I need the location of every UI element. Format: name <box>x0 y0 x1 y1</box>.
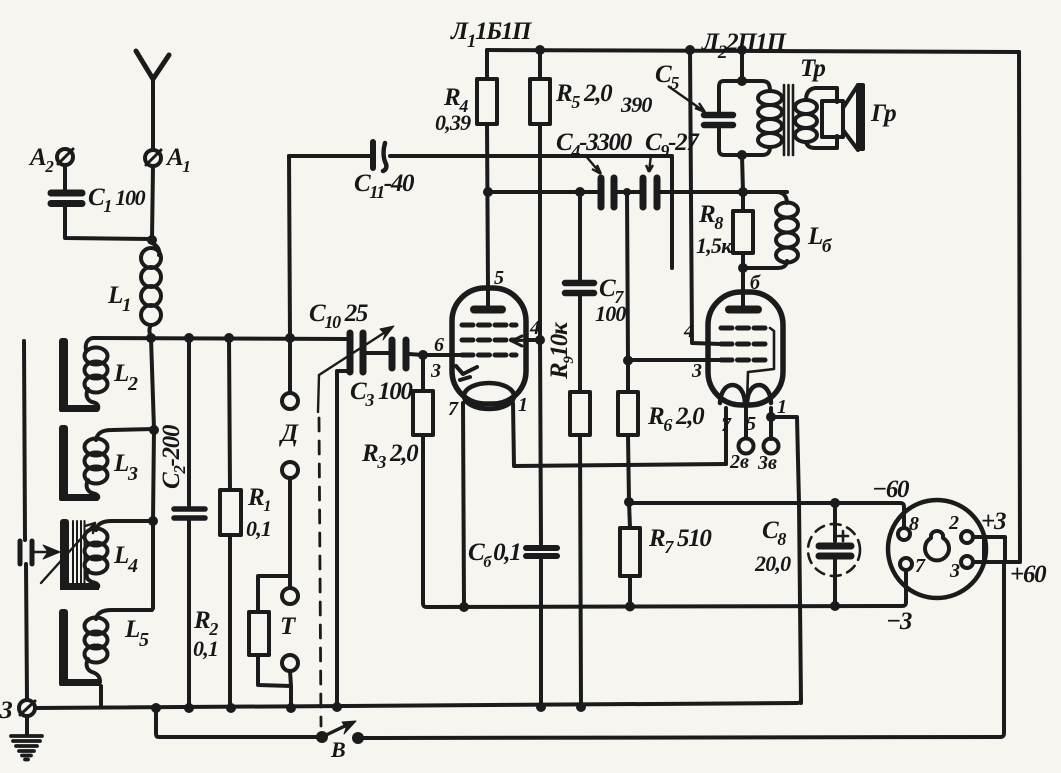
terminal Z (earth) <box>19 700 35 716</box>
node bus transformer feed <box>737 45 747 55</box>
node R9 to rail <box>576 702 586 712</box>
wire right edge +60 riser <box>1005 52 1020 562</box>
tube V2 internal beam connection <box>747 328 774 404</box>
jack contact D lower <box>282 462 298 478</box>
wire +60 riser down to switch rail <box>1000 562 1004 737</box>
svg-text:7: 7 <box>448 398 459 420</box>
svg-text:6: 6 <box>434 334 444 356</box>
node anode line at C7 branch <box>575 187 585 197</box>
capacitor C5 with primary loop left side <box>704 81 742 155</box>
wire top supply bus <box>487 50 1019 52</box>
svg-text:3в: 3в <box>757 452 777 474</box>
wire anode node to tube V2 <box>741 268 745 293</box>
node bus-R1 <box>224 333 234 343</box>
svg-text:7: 7 <box>915 555 926 577</box>
inductor L1 <box>141 243 161 337</box>
svg-text:1: 1 <box>518 394 528 416</box>
wire bus to V2 pin4 <box>690 50 721 344</box>
wire R6 branch from C4-C9 node <box>627 192 628 392</box>
wire bus to transformer top rail <box>740 50 744 81</box>
switch contact left <box>316 731 328 743</box>
svg-text:4: 4 <box>683 320 694 342</box>
resistor R7 <box>620 528 640 576</box>
transformer Tp secondary winding <box>795 88 830 148</box>
wire V1 pin1 filament line to V2 pin7 <box>513 403 726 466</box>
wire R5 down to pin4 node <box>538 124 542 340</box>
svg-text:3: 3 <box>691 360 702 382</box>
svg-text:С2-200: С2-200 <box>158 424 189 489</box>
resistor R1 <box>220 490 241 535</box>
node R7 bottom on y606 <box>625 602 635 612</box>
resistor R4 <box>477 79 497 124</box>
tube V1 grid rows <box>462 325 516 355</box>
capacitor C4 <box>601 178 614 207</box>
node C8 bottom on y606 <box>830 601 840 611</box>
node bus-C2 <box>184 333 194 343</box>
node V2 grid wire <box>623 356 633 366</box>
power plug body <box>888 500 986 598</box>
jack contact T lower <box>282 655 298 671</box>
wire grid-leak line y606 <box>427 570 906 607</box>
svg-text:0,39: 0,39 <box>435 110 471 135</box>
svg-text:З: З <box>0 697 13 724</box>
wire coil tap line L3-L4-L5 <box>151 338 154 608</box>
resistor R2 (jack shunt) <box>249 612 269 655</box>
node pin4 screen <box>535 335 545 345</box>
tube V1 anode <box>474 288 502 310</box>
switch blade <box>322 721 356 737</box>
node rail R1 <box>226 703 236 713</box>
capacitor C3 <box>392 340 406 368</box>
node C6 to rail <box>536 702 546 712</box>
plug pin 2 <box>961 531 973 543</box>
svg-text:б: б <box>750 272 761 294</box>
switch contact right <box>352 732 364 744</box>
svg-text:20,0: 20,0 <box>754 551 791 576</box>
svg-text:390: 390 <box>620 92 652 117</box>
capacitor C2 <box>174 509 205 518</box>
wire R4 to tube V1 pin5 <box>487 124 488 288</box>
node transformer primary bottom <box>737 150 747 160</box>
wire V2 pin5 lead to terminal 2V <box>744 407 748 438</box>
capacitor C10 (trimmer) <box>350 333 363 372</box>
svg-text:В: В <box>330 737 345 762</box>
svg-text:3: 3 <box>949 560 960 582</box>
svg-text:0,1: 0,1 <box>193 636 218 661</box>
coil socket bar L3 <box>59 425 99 501</box>
loudspeaker Gr voice coil and horn <box>822 83 865 151</box>
wire C11 line left segment <box>289 154 371 158</box>
node tap L3 <box>149 425 159 435</box>
wire tuned-circuit bus <box>93 338 347 339</box>
wire antenna stem to terminal A1 <box>151 96 155 150</box>
node anode line at R8-L6 top <box>738 187 748 197</box>
label arrow C4 <box>585 155 601 174</box>
wire C11 line right segment to L6 bottom node <box>390 156 672 268</box>
antenna symbol <box>136 51 169 96</box>
wire A2 to C1 <box>63 165 67 190</box>
terminal A1 <box>145 150 161 166</box>
resistor R3 top lead <box>421 355 425 391</box>
wire C1 to antenna junction <box>65 206 152 239</box>
capacitor C1 <box>51 193 82 204</box>
wire C10 rotor to chassis <box>337 371 350 707</box>
svg-text:1: 1 <box>777 396 787 418</box>
variable-inductance arrow through L4 <box>41 523 95 583</box>
arrow through C10 <box>318 326 394 412</box>
capacitor C7 <box>565 283 594 293</box>
node transformer primary top <box>737 76 747 86</box>
tube V1 diode hook <box>456 366 477 380</box>
svg-text:5: 5 <box>746 413 756 435</box>
wire screen bypass branch down through C6 <box>540 340 541 708</box>
wire A1 down to junction <box>152 166 153 239</box>
svg-text:8: 8 <box>909 513 919 535</box>
wire pin1 branch down right side to ground rail <box>771 417 801 703</box>
node between C4 and C9 <box>623 188 631 196</box>
node rail C2 <box>184 703 194 713</box>
svg-text:3: 3 <box>430 360 441 382</box>
wire C10 to C3 <box>366 351 389 355</box>
node rail L-tap <box>151 703 161 713</box>
inductor L2 <box>85 338 108 409</box>
jack contact T upper <box>282 588 298 604</box>
tube V2 filament arcs <box>720 385 771 403</box>
capacitor C11 (trimmer) <box>373 142 386 171</box>
plug pin 3 <box>961 556 973 568</box>
tube V1 pin4 arrow into grid2 <box>512 336 526 346</box>
jack branch wire from bus <box>288 338 292 393</box>
wire anode coupling line <box>488 190 787 194</box>
wire R7 leads <box>629 502 630 606</box>
svg-text:7: 7 <box>721 414 732 436</box>
node bus screen feed V2 <box>685 45 695 55</box>
wire rail stub to switch <box>156 708 317 737</box>
coil socket bar L5 <box>59 609 101 686</box>
wire C11 riser from bus <box>289 156 290 338</box>
resistor R8 <box>733 211 753 253</box>
resistor R5 top lead <box>538 50 542 79</box>
svg-text:−3: −3 <box>886 608 912 635</box>
switch coupling dashed link <box>319 418 321 726</box>
terminal A2 <box>57 149 73 165</box>
wire chassis plug lead <box>24 341 27 699</box>
label arrow C9 <box>646 155 653 172</box>
node anode line at tube pin5 riser <box>483 187 493 197</box>
wire D to T jack <box>258 478 290 612</box>
node bus-L1 <box>146 333 156 343</box>
resistor R1 branch wire <box>229 338 230 708</box>
node pin1 <box>766 412 776 422</box>
node grid V1 <box>418 350 428 360</box>
power plug keyhole <box>925 531 949 560</box>
label arrow C5 <box>668 86 705 112</box>
svg-text:1,5к: 1,5к <box>696 233 733 258</box>
tube V2 anode <box>729 292 758 310</box>
inductor L6 <box>743 192 798 268</box>
inductor L4 <box>85 521 154 587</box>
wire C7 leads <box>578 192 582 392</box>
resistor R8 bottom lead <box>741 253 745 268</box>
wire -60 line <box>629 503 904 528</box>
band selector plug <box>20 541 32 564</box>
tube V2 grid rows <box>721 328 769 360</box>
resistor R3 <box>413 391 433 435</box>
node jack to rail <box>286 703 296 713</box>
node bus-C11 <box>285 333 295 343</box>
key square jumper <box>984 537 1005 562</box>
svg-text:4: 4 <box>529 317 540 339</box>
svg-text:2: 2 <box>948 512 959 534</box>
wire R2 bottom to T lower contact and rail <box>258 655 291 708</box>
wire V2 pin7 filament lead <box>724 408 728 464</box>
node bus-R5 <box>535 45 545 55</box>
wire V1 pin7 lead down <box>463 403 464 607</box>
wire pin4 node into tube V1 <box>526 338 540 342</box>
node pin7 V1 on y606 <box>459 602 469 612</box>
node C8 top <box>830 498 840 508</box>
plug pin 8 <box>898 528 910 540</box>
wire R9 bottom to rail <box>580 435 581 708</box>
wire R6 bottom to -60 node <box>628 435 629 502</box>
svg-text:5: 5 <box>494 267 504 289</box>
svg-text:R910к: R910к <box>546 321 577 380</box>
plug pin 7 <box>900 558 912 570</box>
node V2 anode <box>738 263 748 273</box>
wire L5 socket to ground rail <box>99 686 103 707</box>
capacitor C2 branch wire <box>187 338 191 708</box>
svg-text:Д: Д <box>279 420 299 447</box>
node tap L4 <box>148 516 158 526</box>
svg-text:100: 100 <box>595 301 626 326</box>
capacitor C8 electrolytic <box>808 503 860 606</box>
inductor L3 <box>85 429 155 498</box>
ground symbol <box>11 736 42 760</box>
resistor R3 bottom lead <box>423 435 427 607</box>
resistor R5 <box>530 79 550 124</box>
svg-text:+3: +3 <box>981 508 1006 535</box>
resistor R9 <box>570 392 590 435</box>
tube V1 envelope <box>452 288 526 404</box>
resistor R8 top lead <box>741 192 745 211</box>
transformer Tp core <box>784 85 793 155</box>
tube V2 envelope <box>708 292 783 405</box>
inductor L5 <box>85 608 154 682</box>
resistor R6 <box>618 392 638 435</box>
capacitor C6 <box>526 548 557 556</box>
wire Z to ground symbol <box>25 716 29 734</box>
node -60 line left end <box>624 497 634 507</box>
wire V2 pin1 lead <box>769 408 773 439</box>
wire V2 pin3 grid lead <box>629 358 721 362</box>
terminal 3V <box>764 439 779 454</box>
svg-text:2в: 2в <box>729 451 749 473</box>
band selector plug arrow into L4 <box>33 545 60 559</box>
svg-text:+60: +60 <box>1010 561 1047 588</box>
capacitor C9 <box>643 178 657 207</box>
coil socket bar L4 with inserted plug hatching <box>60 519 99 590</box>
jack contact D upper <box>282 393 298 409</box>
svg-text:Тр: Тр <box>800 55 825 82</box>
transformer Tp primary winding <box>742 81 782 155</box>
wire switch to +60 riser <box>358 737 1000 738</box>
wire transformer bottom to anode choke node <box>742 155 743 192</box>
node antenna junction <box>147 235 157 245</box>
coil socket bar L2 <box>59 338 99 412</box>
wire plug pins 2,3 to key square <box>973 537 984 562</box>
svg-text:Гр: Гр <box>870 100 896 127</box>
tube V1 filament loop <box>464 383 514 409</box>
terminal 2V <box>739 439 754 454</box>
wire C3 to grid node <box>409 354 462 355</box>
svg-text:−60: −60 <box>872 476 910 503</box>
svg-text:0,1: 0,1 <box>246 516 271 541</box>
wire ground rail <box>35 699 801 708</box>
node rail C10 rotor <box>332 702 342 712</box>
resistor R4 top lead <box>485 50 489 79</box>
